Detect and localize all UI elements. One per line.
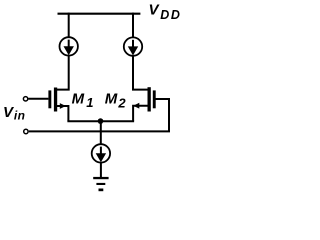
label M2 — [105, 90, 127, 110]
current source I1 (left load) — [59, 37, 77, 55]
svg-text:2: 2 — [117, 96, 126, 111]
wire: M2 source to tail node — [133, 106, 148, 122]
terminal: input (lower) — [24, 129, 28, 133]
wire: I1 to M1 drain — [55, 56, 68, 90]
wire: tail node to current source I3 — [100, 121, 102, 145]
svg-text:DD: DD — [160, 8, 181, 22]
current source I3 (tail) — [92, 144, 110, 162]
wire: I2 to M2 drain — [133, 56, 149, 90]
svg-text:in: in — [14, 108, 25, 122]
wire: rail to current source I1 — [68, 13, 70, 38]
svg-text:M: M — [105, 90, 118, 107]
label M1 — [72, 90, 94, 110]
terminal: input (upper) — [23, 97, 27, 101]
junction: tail node — [98, 118, 104, 124]
label Vin — [3, 104, 25, 123]
transistor M1 — [48, 88, 66, 112]
wire: I3 to ground — [100, 163, 102, 178]
svg-text:1: 1 — [86, 95, 93, 110]
wire: lower input terminal to M2 gate — [29, 99, 169, 131]
svg-text:V: V — [149, 2, 161, 19]
ground — [93, 177, 108, 191]
svg-text:M: M — [72, 90, 85, 107]
wire: rail to current source I2 — [132, 13, 134, 38]
wire: M1 source to tail node — [57, 106, 69, 121]
wire: input terminal to M1 gate — [29, 98, 49, 100]
wire: common source line — [67, 120, 134, 122]
wire: VDD supply rail — [58, 13, 141, 15]
label VDD — [149, 2, 182, 22]
current source I2 (right load) — [124, 37, 142, 55]
transistor M2 — [133, 87, 156, 111]
